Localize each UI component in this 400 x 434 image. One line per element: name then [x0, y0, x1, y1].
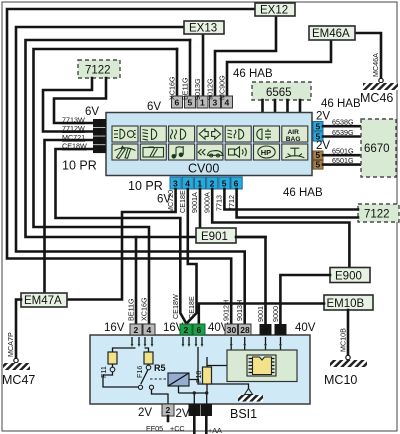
- wire EM10B to MC10: [347, 310, 350, 356]
- svg-text:EX13: EX13: [189, 23, 217, 35]
- svg-text:9013H: 9013H: [235, 300, 244, 321]
- icon low beam: [143, 129, 157, 140]
- svg-text:28: 28: [240, 325, 250, 335]
- svg-text:EF05: EF05: [146, 424, 163, 433]
- svg-text:4: 4: [185, 179, 190, 189]
- icon horn speaker: [229, 147, 247, 157]
- svg-text:+AA: +AA: [208, 426, 222, 434]
- unit BSI1 box: [90, 335, 310, 404]
- svg-text:6501G: 6501G: [332, 147, 354, 156]
- wire 7713 to 7122: [224, 189, 358, 210]
- svg-text:EM10B: EM10B: [327, 298, 365, 310]
- svg-text:CE18E: CE18E: [178, 190, 187, 213]
- logic unit box: [227, 350, 297, 382]
- icon windscreen wiper: [115, 146, 136, 158]
- svg-text:AIR: AIR: [288, 129, 300, 136]
- wire BE11G loop: [26, 40, 266, 324]
- wire to EF05 pin: [113, 387, 169, 404]
- svg-text:2: 2: [166, 405, 171, 415]
- connector EX12: [255, 3, 295, 17]
- wire 9013G EX13 to CV00: [202, 34, 205, 104]
- svg-text:16V: 16V: [104, 322, 125, 334]
- CV00 left connector pins 5 6 3 4: [93, 118, 106, 154]
- svg-text:MCA7P: MCA7P: [6, 332, 15, 357]
- icon headlamp flash: [114, 129, 136, 139]
- svg-text:HP: HP: [261, 148, 271, 157]
- BSI bottom grey pin 2: [162, 404, 174, 416]
- svg-text:6: 6: [234, 179, 239, 189]
- wire 9012G EX12 to CV00: [215, 15, 276, 104]
- BSI bottom black pins 1 2: [189, 404, 201, 416]
- svg-text:3: 3: [173, 179, 178, 189]
- fuse F11 feed: [113, 348, 149, 352]
- svg-text:7122: 7122: [85, 65, 111, 77]
- fuse F11: [108, 352, 117, 364]
- 6565 wires: [263, 100, 301, 113]
- svg-text:30: 30: [227, 325, 237, 335]
- connector 6565: [252, 82, 311, 100]
- svg-text:CE18W: CE18W: [62, 142, 87, 151]
- svg-text:MC10: MC10: [324, 373, 357, 387]
- svg-text:BE11G: BE11G: [181, 77, 190, 100]
- svg-text:F18: F18: [194, 371, 203, 383]
- svg-text:4: 4: [147, 325, 152, 335]
- svg-text:XC16G: XC16G: [140, 297, 149, 321]
- svg-text:7713W: 7713W: [62, 116, 85, 125]
- icon HP: [258, 146, 275, 158]
- svg-text:46 HAB: 46 HAB: [283, 187, 323, 199]
- wires 6501G 6501G: [323, 155, 361, 164]
- svg-text:5: 5: [316, 121, 321, 131]
- wire 7712 to 7122: [237, 189, 358, 218]
- ground MC10: [346, 355, 350, 359]
- icon position light: [257, 129, 271, 140]
- connector 7122 top: [78, 60, 120, 78]
- svg-text:CE18W: CE18W: [171, 294, 180, 319]
- icon turn signals: [199, 129, 220, 139]
- svg-text:2: 2: [184, 325, 189, 335]
- svg-text:6565: 6565: [266, 87, 292, 99]
- svg-text:2V: 2V: [138, 407, 152, 419]
- svg-text:F16: F16: [135, 366, 144, 378]
- relay R5 dashed link: [150, 378, 167, 380]
- icon horn note: [172, 146, 184, 159]
- ground MC46: [379, 78, 383, 82]
- svg-text:BSI1: BSI1: [230, 407, 257, 421]
- svg-text:MC10B: MC10B: [339, 328, 348, 352]
- connector EX13: [184, 21, 224, 35]
- arrows into logic box from pins 30 28 4 2: [230, 337, 282, 350]
- wire EM47A to MC47: [16, 300, 21, 360]
- switch step wire: [103, 364, 139, 387]
- svg-text:2V: 2V: [176, 408, 190, 420]
- splice E901: [196, 228, 236, 243]
- svg-text:+CC: +CC: [170, 424, 185, 433]
- wire CE18E: [187, 189, 197, 323]
- svg-text:E900: E900: [335, 271, 362, 283]
- fuse F16: [144, 352, 153, 364]
- wire E901 right: [236, 236, 266, 239]
- wire 9000A to E900: [212, 189, 349, 268]
- wire 9001A to E901: [199, 189, 202, 228]
- icon antenna: [285, 148, 304, 158]
- CV00 top connector pins 6 5 1 3 4: [172, 96, 233, 108]
- CV00 icon cells row 1: [112, 126, 138, 142]
- svg-text:EM47A: EM47A: [24, 295, 62, 307]
- svg-text:46 HAB: 46 HAB: [233, 68, 273, 80]
- svg-text:6538G: 6538G: [332, 118, 354, 127]
- relay R5 coil: [168, 373, 189, 386]
- svg-text:10 PR: 10 PR: [62, 159, 97, 173]
- svg-text:1: 1: [197, 179, 202, 189]
- svg-text:MC721: MC721: [62, 133, 85, 142]
- svg-text:MC90G: MC90G: [218, 75, 227, 100]
- fuse F18: [207, 357, 227, 394]
- svg-text:7122: 7122: [364, 209, 390, 221]
- wire EX12 left loop (9012H): [7, 9, 256, 324]
- wire EM46A to MC46: [355, 33, 381, 79]
- wire 7122 to pin5: [54, 78, 106, 123]
- svg-text:40V: 40V: [295, 322, 316, 334]
- svg-text:MC720: MC720: [166, 190, 175, 213]
- unit CV00 box: [106, 113, 312, 176]
- svg-text:46 HAB: 46 HAB: [321, 98, 361, 110]
- svg-text:BAG: BAG: [286, 136, 301, 143]
- svg-text:6539G: 6539G: [332, 128, 354, 137]
- svg-text:9012H: 9012H: [222, 300, 231, 321]
- svg-text:MC46A: MC46A: [371, 53, 380, 77]
- svg-text:9001A: 9001A: [190, 192, 199, 213]
- svg-text:9000: 9000: [271, 306, 280, 322]
- svg-text:BE11G: BE11G: [127, 298, 136, 321]
- splice EM46A: [309, 26, 355, 40]
- CV00 icon cells row 2: [112, 144, 138, 160]
- wire XC16G loop: [34, 49, 178, 324]
- svg-text:4: 4: [97, 144, 102, 154]
- splice EM10B: [324, 295, 373, 310]
- svg-text:EX12: EX12: [260, 5, 288, 17]
- unit 6670: [361, 119, 396, 177]
- ground MC47: [14, 358, 18, 362]
- svg-text:6V: 6V: [85, 106, 99, 118]
- icon rear fog: [228, 129, 244, 139]
- CV00 bottom connector pins 3 4 1 2 5 6: [170, 177, 242, 189]
- BSI top connector grey pins 30 28: [225, 324, 238, 335]
- wire MC720: [67, 189, 176, 300]
- svg-text:XC16G: XC16G: [168, 76, 177, 100]
- internal bus to battery pins: [179, 386, 207, 404]
- svg-text:9013G: 9013G: [193, 78, 202, 100]
- wire BE11G riser to BSI: [135, 237, 138, 324]
- icon car arrow: [198, 149, 223, 157]
- svg-text:2: 2: [210, 179, 215, 189]
- wire XC16G riser CV00: [176, 49, 179, 104]
- svg-text:6V: 6V: [147, 101, 161, 113]
- svg-text:2: 2: [278, 325, 283, 335]
- arrows under grey pins: [131, 337, 154, 347]
- wire internal ground: [198, 380, 249, 390]
- svg-text:9000A: 9000A: [202, 192, 211, 213]
- svg-text:9012G: 9012G: [206, 78, 215, 100]
- splice EM47A: [21, 293, 67, 307]
- svg-text:CE18E: CE18E: [187, 296, 196, 319]
- svg-text:MC46: MC46: [360, 91, 393, 105]
- svg-text:2: 2: [204, 405, 209, 415]
- svg-text:6501G: 6501G: [332, 156, 354, 165]
- svg-text:9001: 9001: [256, 306, 265, 322]
- wire 7122 to pin6: [43, 78, 93, 132]
- wire BE11G riser CV00: [189, 40, 192, 104]
- svg-text:2: 2: [134, 325, 139, 335]
- wire CE18W: [56, 149, 187, 323]
- svg-text:MC47: MC47: [2, 373, 35, 387]
- svg-text:6670: 6670: [364, 143, 390, 155]
- arrows under green pins: [182, 337, 204, 347]
- svg-text:E901: E901: [201, 231, 228, 243]
- wire EX13 left loop (9013H): [16, 27, 245, 324]
- wire MC90G CV00 to EM46A: [227, 40, 331, 104]
- svg-text:4: 4: [263, 325, 268, 335]
- svg-text:CV00: CV00: [188, 162, 219, 176]
- wire EM10B to BSI green pin 6: [199, 304, 324, 325]
- icon front fog: [171, 129, 186, 139]
- svg-text:6: 6: [197, 325, 202, 335]
- BSI top connector black pins 4 2: [260, 324, 272, 335]
- svg-text:7712W: 7712W: [62, 124, 85, 133]
- svg-text:EM46A: EM46A: [312, 28, 350, 40]
- svg-text:5: 5: [222, 179, 227, 189]
- svg-text:10 PR: 10 PR: [128, 179, 163, 193]
- icon rear wiper: [143, 147, 164, 157]
- wire coil to riser: [189, 347, 198, 380]
- svg-text:R5: R5: [154, 363, 166, 373]
- connector 7122 right: [358, 204, 399, 222]
- svg-text:7713: 7713: [215, 195, 224, 211]
- wires 6538G 6539G: [323, 126, 361, 136]
- microcontroller chip: [247, 355, 276, 376]
- svg-text:5: 5: [316, 160, 321, 170]
- splice E900: [330, 268, 370, 283]
- svg-text:1: 1: [192, 405, 197, 415]
- wire MC721: [45, 140, 94, 293]
- wire E900 to BSI 9000: [280, 275, 330, 324]
